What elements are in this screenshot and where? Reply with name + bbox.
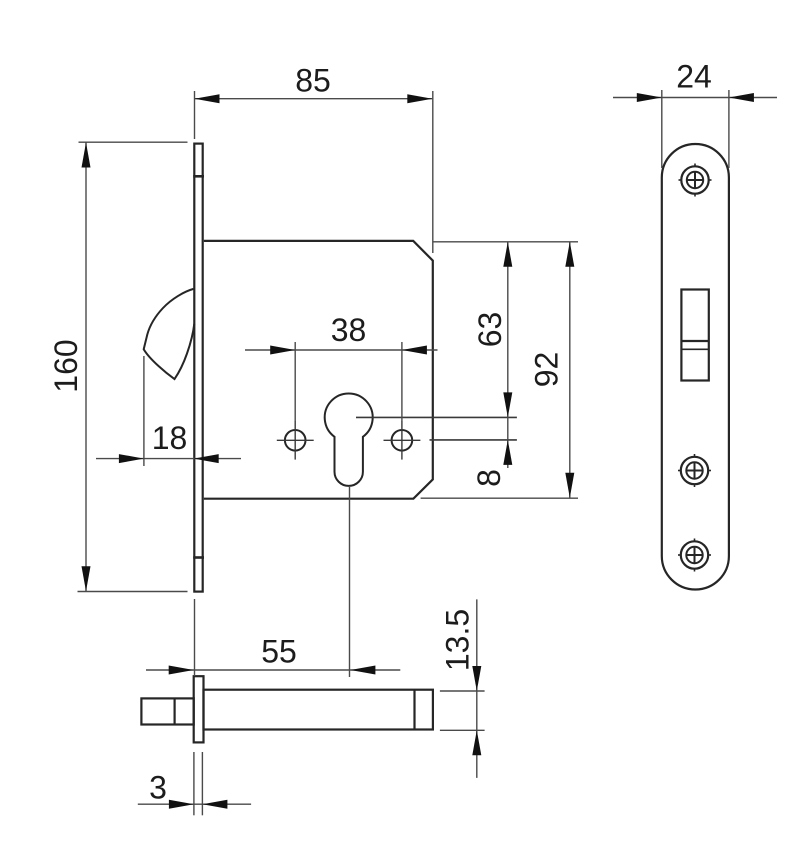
dim 63 arrow top: [503, 242, 512, 267]
dim 24 arrow right: [729, 93, 754, 102]
left fixing hole: [285, 430, 306, 451]
faceplate notch lower: [193, 556, 204, 559]
hook bolt: [144, 289, 195, 379]
svg-text:85: 85: [295, 63, 331, 99]
screw middle: [678, 454, 711, 487]
bolt tip divider: [174, 698, 176, 724]
dim 24 arrow left: [637, 93, 662, 102]
svg-text:8: 8: [471, 469, 507, 487]
dim 160 arrow bottom: [82, 566, 91, 591]
right fixing hole: [392, 430, 413, 451]
dim 3 arrow left: [169, 800, 194, 809]
dim 55 arrow right: [350, 666, 375, 675]
svg-text:18: 18: [152, 420, 188, 456]
dim 92 arrow bottom: [565, 473, 574, 498]
svg-text:24: 24: [676, 59, 712, 95]
dim 85 arrow left: [195, 94, 220, 103]
dim 38 arrow right: [402, 346, 427, 355]
dim 3 ext right: [201, 752, 203, 815]
dim 18 ext: [143, 356, 145, 466]
dim 38 ext right: [401, 342, 403, 421]
dim 63-8 line: [507, 242, 509, 468]
screw centre reference line: [430, 439, 517, 441]
dim 24 ext right: [728, 90, 730, 168]
case end cap line: [413, 690, 415, 730]
bolt tip section: [141, 698, 193, 724]
dim 85 ext left: [194, 91, 196, 139]
dim 3 line: [138, 803, 251, 805]
screw top: [679, 164, 712, 197]
dim 13.5 arrow top: [472, 666, 481, 691]
dim 63 arrow bottom: [503, 392, 512, 417]
svg-text:55: 55: [261, 634, 297, 670]
dim 24 ext left: [661, 90, 663, 168]
dim 85 line: [195, 98, 433, 100]
faceplate section: [194, 676, 204, 742]
dim 160 witness bottom: [78, 591, 188, 593]
dim 24 line: [613, 97, 777, 99]
dim 92 witness bottom: [421, 497, 578, 499]
bolt edge line lower: [681, 348, 708, 350]
view link line: [194, 599, 196, 676]
dim 38 ext left: [294, 342, 296, 421]
dim 85 ext right: [432, 91, 434, 253]
case section: [204, 690, 433, 730]
strike plate outline: [662, 144, 729, 590]
svg-text:160: 160: [48, 339, 84, 392]
dim 92 witness top: [433, 241, 578, 243]
svg-text:92: 92: [529, 352, 565, 388]
dim 38 arrow left: [270, 346, 295, 355]
dim 55 ext right: [349, 486, 351, 677]
euro cylinder keyway: [325, 393, 373, 485]
dim 160 witness top: [79, 141, 188, 143]
svg-text:38: 38: [331, 312, 367, 348]
screw bottom: [678, 539, 711, 572]
right fixing hole crosshair: [384, 421, 421, 460]
dim 92 arrow top: [565, 242, 574, 267]
dim 55 line: [146, 669, 400, 671]
dim 160 arrow top: [82, 143, 91, 168]
dim 160 line: [85, 143, 87, 592]
dim 8 arrow: [503, 440, 512, 465]
dim 55 arrow left: [169, 666, 194, 675]
svg-text:3: 3: [149, 770, 167, 806]
dim 13.5 witness bottom: [440, 729, 485, 731]
dim 85 arrow right: [407, 94, 432, 103]
cylinder centre reference line: [356, 416, 517, 418]
dim 18 arrow left: [119, 454, 144, 463]
faceplate notch upper: [193, 175, 204, 178]
bolt opening: [681, 290, 708, 381]
dim 18 arrow right: [194, 454, 219, 463]
dim 3 ext left: [193, 752, 195, 815]
dim 13.5 arrow bottom: [472, 730, 481, 755]
dim 18 line: [96, 458, 241, 460]
dim 13.5 witness top: [440, 690, 485, 692]
faceplate front view: [194, 144, 202, 592]
lock case body outline: [204, 241, 433, 499]
dim 3 arrow right: [202, 800, 227, 809]
svg-text:63: 63: [472, 312, 508, 348]
left fixing hole crosshair: [277, 421, 314, 460]
bolt edge line upper: [681, 340, 708, 342]
dim 92 line: [569, 242, 571, 498]
dim 38 line: [245, 349, 438, 351]
svg-text:13.5: 13.5: [440, 609, 476, 671]
dim 13.5 line: [476, 599, 478, 778]
